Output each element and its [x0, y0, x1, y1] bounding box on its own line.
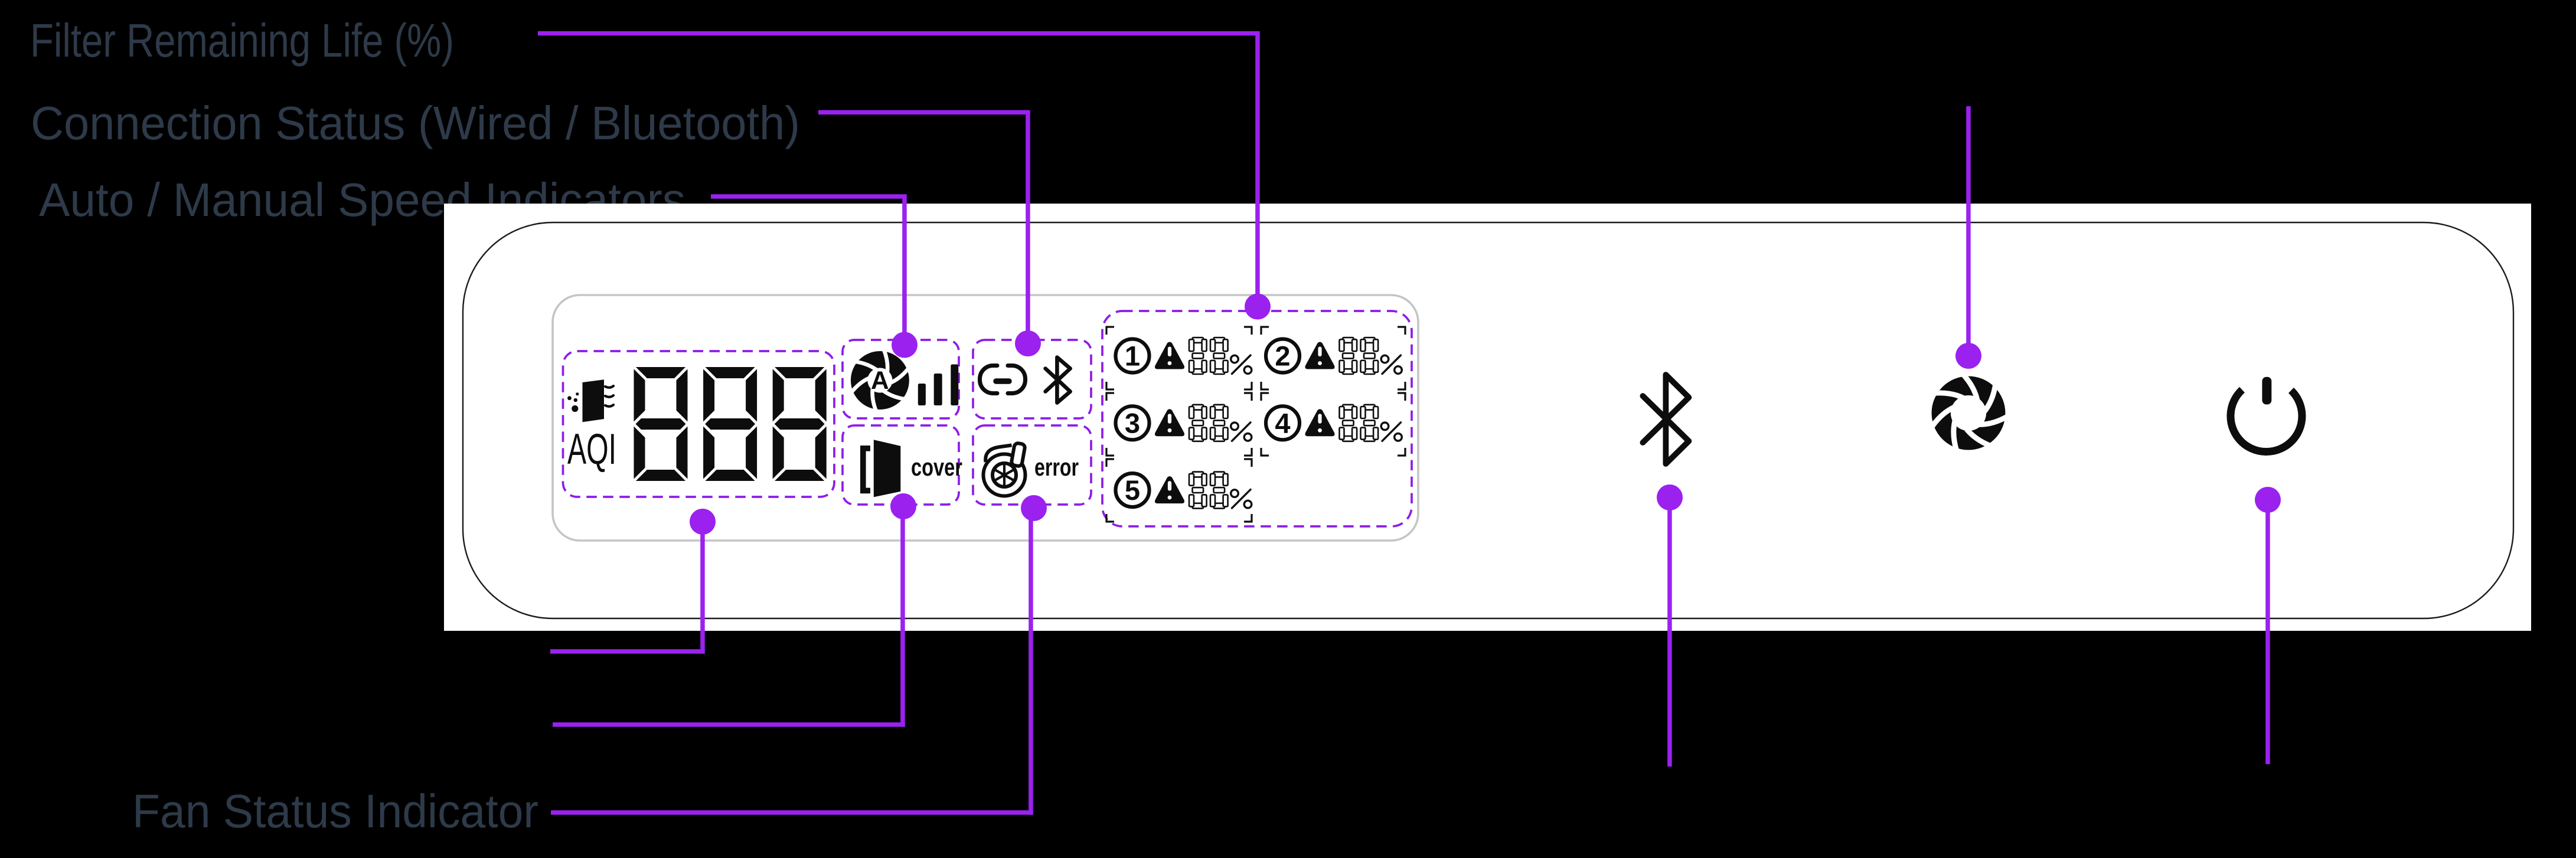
filter 5 remaining life 88	[1189, 472, 1207, 509]
filter 5 indicator: circled number	[1116, 473, 1150, 507]
auto fan icon	[859, 359, 900, 401]
AQI reading group box (dashed)	[563, 351, 835, 497]
cover (door) icon	[860, 440, 900, 497]
svg-text:cover: cover	[911, 453, 962, 481]
manual speed signal bars	[918, 365, 959, 406]
filter 1 cell corner brackets	[1106, 327, 1252, 389]
svg-text:4: 4	[1275, 407, 1290, 438]
LCD display frame	[553, 295, 1418, 541]
annotation line: AQI display	[690, 509, 716, 535]
annotation line: cover status	[890, 493, 916, 519]
svg-text:A: A	[871, 367, 889, 395]
filter 2 remaining life 88	[1340, 338, 1357, 374]
bluetooth (small) icon	[1046, 358, 1070, 403]
annotation line: auto/manual speed	[711, 194, 907, 199]
control panel outline	[463, 222, 2513, 618]
control panel body (white)	[444, 204, 2531, 631]
filter 4 indicator: circled number	[1266, 406, 1300, 440]
annotation line: filter remaining life	[538, 31, 1260, 36]
filter 4 remaining life 88	[1340, 405, 1357, 441]
svg-text:Connection Status (Wired / Blu: Connection Status (Wired / Bluetooth)	[31, 97, 800, 149]
auto speed group box (dashed)	[843, 340, 959, 418]
filter 4 warning triangle	[1305, 409, 1335, 436]
filter 3 remaining life 88	[1189, 405, 1207, 441]
svg-text:2: 2	[1275, 340, 1290, 372]
svg-text:AQI: AQI	[567, 425, 616, 473]
svg-text:3: 3	[1125, 407, 1140, 438]
connection status group box (dashed)	[973, 340, 1091, 418]
filter 5 warning triangle	[1155, 476, 1184, 503]
svg-text:error: error	[1034, 453, 1079, 481]
error status group box (dashed)	[973, 425, 1091, 505]
fan error (turbo) icon	[984, 443, 1026, 496]
filter 1 remaining life 88	[1189, 338, 1207, 374]
filter 1 indicator: circled number	[1116, 339, 1150, 373]
filter 3 percent sign	[1231, 423, 1252, 441]
power button icon	[2231, 377, 2302, 452]
annotation line: power button	[2255, 487, 2281, 513]
seven-segment display 888	[634, 367, 688, 481]
wired connection icon	[980, 366, 1026, 394]
filter 2 indicator: circled number	[1266, 339, 1300, 373]
filter 1 warning triangle	[1155, 342, 1184, 369]
filter 2 cell corner brackets	[1261, 327, 1405, 389]
filter 3 cell corner brackets	[1106, 393, 1252, 456]
bluetooth button icon	[1643, 375, 1689, 464]
filter 5 cell corner brackets	[1106, 459, 1252, 522]
AQI sensor icon	[567, 379, 613, 422]
svg-text:Filter Remaining Life (%): Filter Remaining Life (%)	[30, 14, 454, 67]
filter 5 percent sign	[1231, 490, 1252, 509]
fan button icon	[1941, 386, 1996, 440]
annotation line: fan button	[1966, 106, 1971, 356]
filter remaining life group box (dashed)	[1102, 311, 1412, 526]
filter 3 warning triangle	[1155, 409, 1184, 436]
svg-text:Fan Status Indicator: Fan Status Indicator	[132, 785, 538, 837]
filter 3 indicator: circled number	[1116, 406, 1150, 440]
filter 4 percent sign	[1381, 423, 1402, 441]
filter 1 percent sign	[1231, 355, 1252, 374]
filter 2 warning triangle	[1305, 342, 1335, 369]
annotation line: connection status	[818, 110, 1030, 115]
filter 2 percent sign	[1381, 355, 1402, 374]
annotation line: bluetooth button	[1657, 484, 1683, 510]
svg-text:1: 1	[1125, 340, 1140, 372]
svg-text:5: 5	[1125, 474, 1140, 506]
cover status group box (dashed)	[843, 425, 959, 505]
filter 4 cell corner brackets	[1261, 393, 1405, 456]
annotation line: fan status indicator	[1021, 495, 1047, 521]
